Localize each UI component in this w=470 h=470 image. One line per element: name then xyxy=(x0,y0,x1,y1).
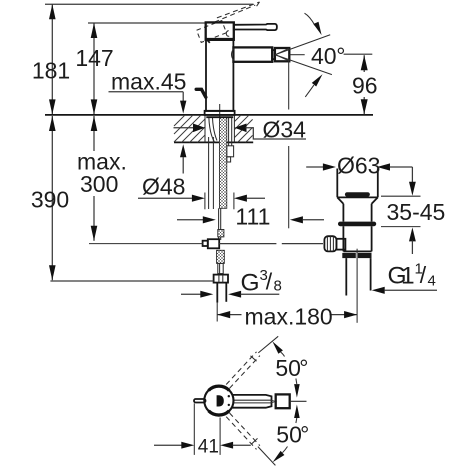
spout neck xyxy=(272,50,275,59)
deck hatch left xyxy=(174,115,205,143)
lever handle xyxy=(234,24,277,30)
dimension line 390 xyxy=(51,116,53,280)
dimension line 147 xyxy=(93,23,95,114)
cartridge cap xyxy=(206,22,234,39)
svg-text:50: 50 xyxy=(276,421,302,447)
svg-text:96: 96 xyxy=(352,73,378,99)
50 deg upper arrow xyxy=(272,341,283,353)
svg-text:8: 8 xyxy=(274,277,282,294)
spray centerline xyxy=(289,54,304,56)
svg-text:°: ° xyxy=(336,43,345,69)
svg-text:50: 50 xyxy=(275,355,301,381)
hose braid below fitting xyxy=(217,250,225,263)
drain knob xyxy=(324,236,336,251)
drain knob neck xyxy=(336,239,345,250)
top view aerator xyxy=(276,394,290,408)
dimension line max.300 xyxy=(93,116,95,151)
aerator X xyxy=(275,49,289,55)
svg-text:°: ° xyxy=(300,421,309,447)
left hose below deck xyxy=(208,137,210,209)
dimension 41 xyxy=(154,444,182,446)
drain lock band xyxy=(342,253,356,258)
svg-text:1: 1 xyxy=(401,263,415,290)
deck hole edges xyxy=(204,115,206,142)
reference line (147) xyxy=(88,22,207,24)
cap detail curl xyxy=(226,31,229,37)
svg-text:/: / xyxy=(420,262,427,288)
G3/8 nut xyxy=(214,275,228,283)
dimension max.180 xyxy=(217,314,241,316)
drain tailpipe xyxy=(345,258,347,295)
dimension O34 arrows xyxy=(174,127,195,129)
right hose in hole xyxy=(228,117,230,146)
G1 1/4 arrow xyxy=(372,287,385,294)
spout inner arc xyxy=(232,49,234,61)
dashed lever upper 50 xyxy=(226,352,256,385)
shank braided strip xyxy=(219,117,226,208)
hose plain segment xyxy=(218,263,223,273)
spout tip extension line xyxy=(288,60,290,110)
svg-text:181: 181 xyxy=(32,58,70,84)
circle dots xyxy=(228,395,230,397)
lever extension upper xyxy=(258,336,278,353)
50 deg lower arrow xyxy=(273,451,285,462)
spray fan upper line xyxy=(275,35,330,55)
svg-text:147: 147 xyxy=(75,45,113,71)
dashed lever lower 50 xyxy=(230,413,260,446)
deck hatch right xyxy=(235,115,253,143)
svg-text:41: 41 xyxy=(198,436,219,457)
reference line top (181) xyxy=(45,3,253,5)
deck bottom line xyxy=(174,141,253,143)
pop-up rod below shank xyxy=(218,208,220,240)
G3/8 dimension arrows xyxy=(181,293,201,295)
faucet centerline xyxy=(219,104,221,118)
svg-text:max.45: max.45 xyxy=(111,69,186,95)
max180 extension line xyxy=(216,303,218,322)
faucet body xyxy=(206,40,233,111)
390 reference line xyxy=(50,280,213,282)
O34 leader xyxy=(246,128,307,139)
drain body upper xyxy=(342,204,344,222)
cartridge D mark xyxy=(217,395,224,406)
linkage fitting xyxy=(203,241,208,246)
svg-text:Ø34: Ø34 xyxy=(263,116,307,142)
svg-text:111: 111 xyxy=(235,204,270,230)
pop-up knob tab (top view) xyxy=(194,399,206,403)
drain centerline xyxy=(356,249,358,323)
rod coupler xyxy=(218,230,224,237)
dimension line 181 xyxy=(51,4,53,114)
dimension O48 xyxy=(138,197,193,199)
dimension max.45 xyxy=(182,92,184,101)
lever extension lower xyxy=(258,447,276,466)
svg-text:35-45: 35-45 xyxy=(387,199,446,225)
dimension 111 xyxy=(177,219,204,221)
svg-text:300: 300 xyxy=(80,171,118,197)
circle thick top arc xyxy=(209,386,230,390)
cap small tick xyxy=(208,40,210,43)
svg-text:40: 40 xyxy=(311,43,337,69)
spout tube xyxy=(233,47,272,61)
dimension O63 xyxy=(306,166,323,168)
svg-text:Ø48: Ø48 xyxy=(142,174,185,200)
svg-text:Ø63: Ø63 xyxy=(337,153,380,179)
svg-text:390: 390 xyxy=(31,187,69,213)
top view body circle xyxy=(204,386,233,415)
pop-up lift knob xyxy=(196,89,206,97)
svg-text:/: / xyxy=(266,269,273,295)
drain seal ring xyxy=(338,222,376,227)
drain rim xyxy=(337,196,378,198)
dashed cap (raised position) xyxy=(197,21,227,43)
41 extension lines xyxy=(193,403,195,455)
hose curves in deck hole xyxy=(209,117,215,143)
dashed lever (raised position) xyxy=(214,5,255,22)
angle leader to spout axis lower xyxy=(294,405,300,419)
side mounting block xyxy=(227,146,234,157)
dimension 35-45 xyxy=(411,167,413,183)
top view spout outer xyxy=(233,395,272,408)
svg-text:°: ° xyxy=(299,355,308,381)
aerator xyxy=(275,48,289,61)
spray fan lower line xyxy=(275,55,332,75)
dimension 96 xyxy=(363,55,365,72)
linkage rod xyxy=(89,243,203,245)
deck top line xyxy=(45,114,373,116)
drain body lower xyxy=(342,226,344,251)
drain funnel xyxy=(337,197,343,203)
G3/8 tube xyxy=(216,283,218,303)
drain plug dome xyxy=(345,192,370,196)
hole collar xyxy=(206,116,233,118)
O48 extension lines xyxy=(204,193,206,210)
top view spout inner slot xyxy=(234,400,276,403)
faucet base plate xyxy=(205,111,235,115)
svg-text:max.180: max.180 xyxy=(245,303,333,329)
drain upper tube xyxy=(336,169,338,198)
40 deg lower leader arrow xyxy=(305,85,314,97)
circle thick bottom arc xyxy=(209,411,230,415)
angle leader to spout axis upper xyxy=(295,379,298,385)
svg-text:4: 4 xyxy=(428,273,436,290)
top view spout centerline xyxy=(290,400,307,402)
40 deg upper leader arrow xyxy=(305,13,315,25)
svg-text:G: G xyxy=(241,270,260,297)
